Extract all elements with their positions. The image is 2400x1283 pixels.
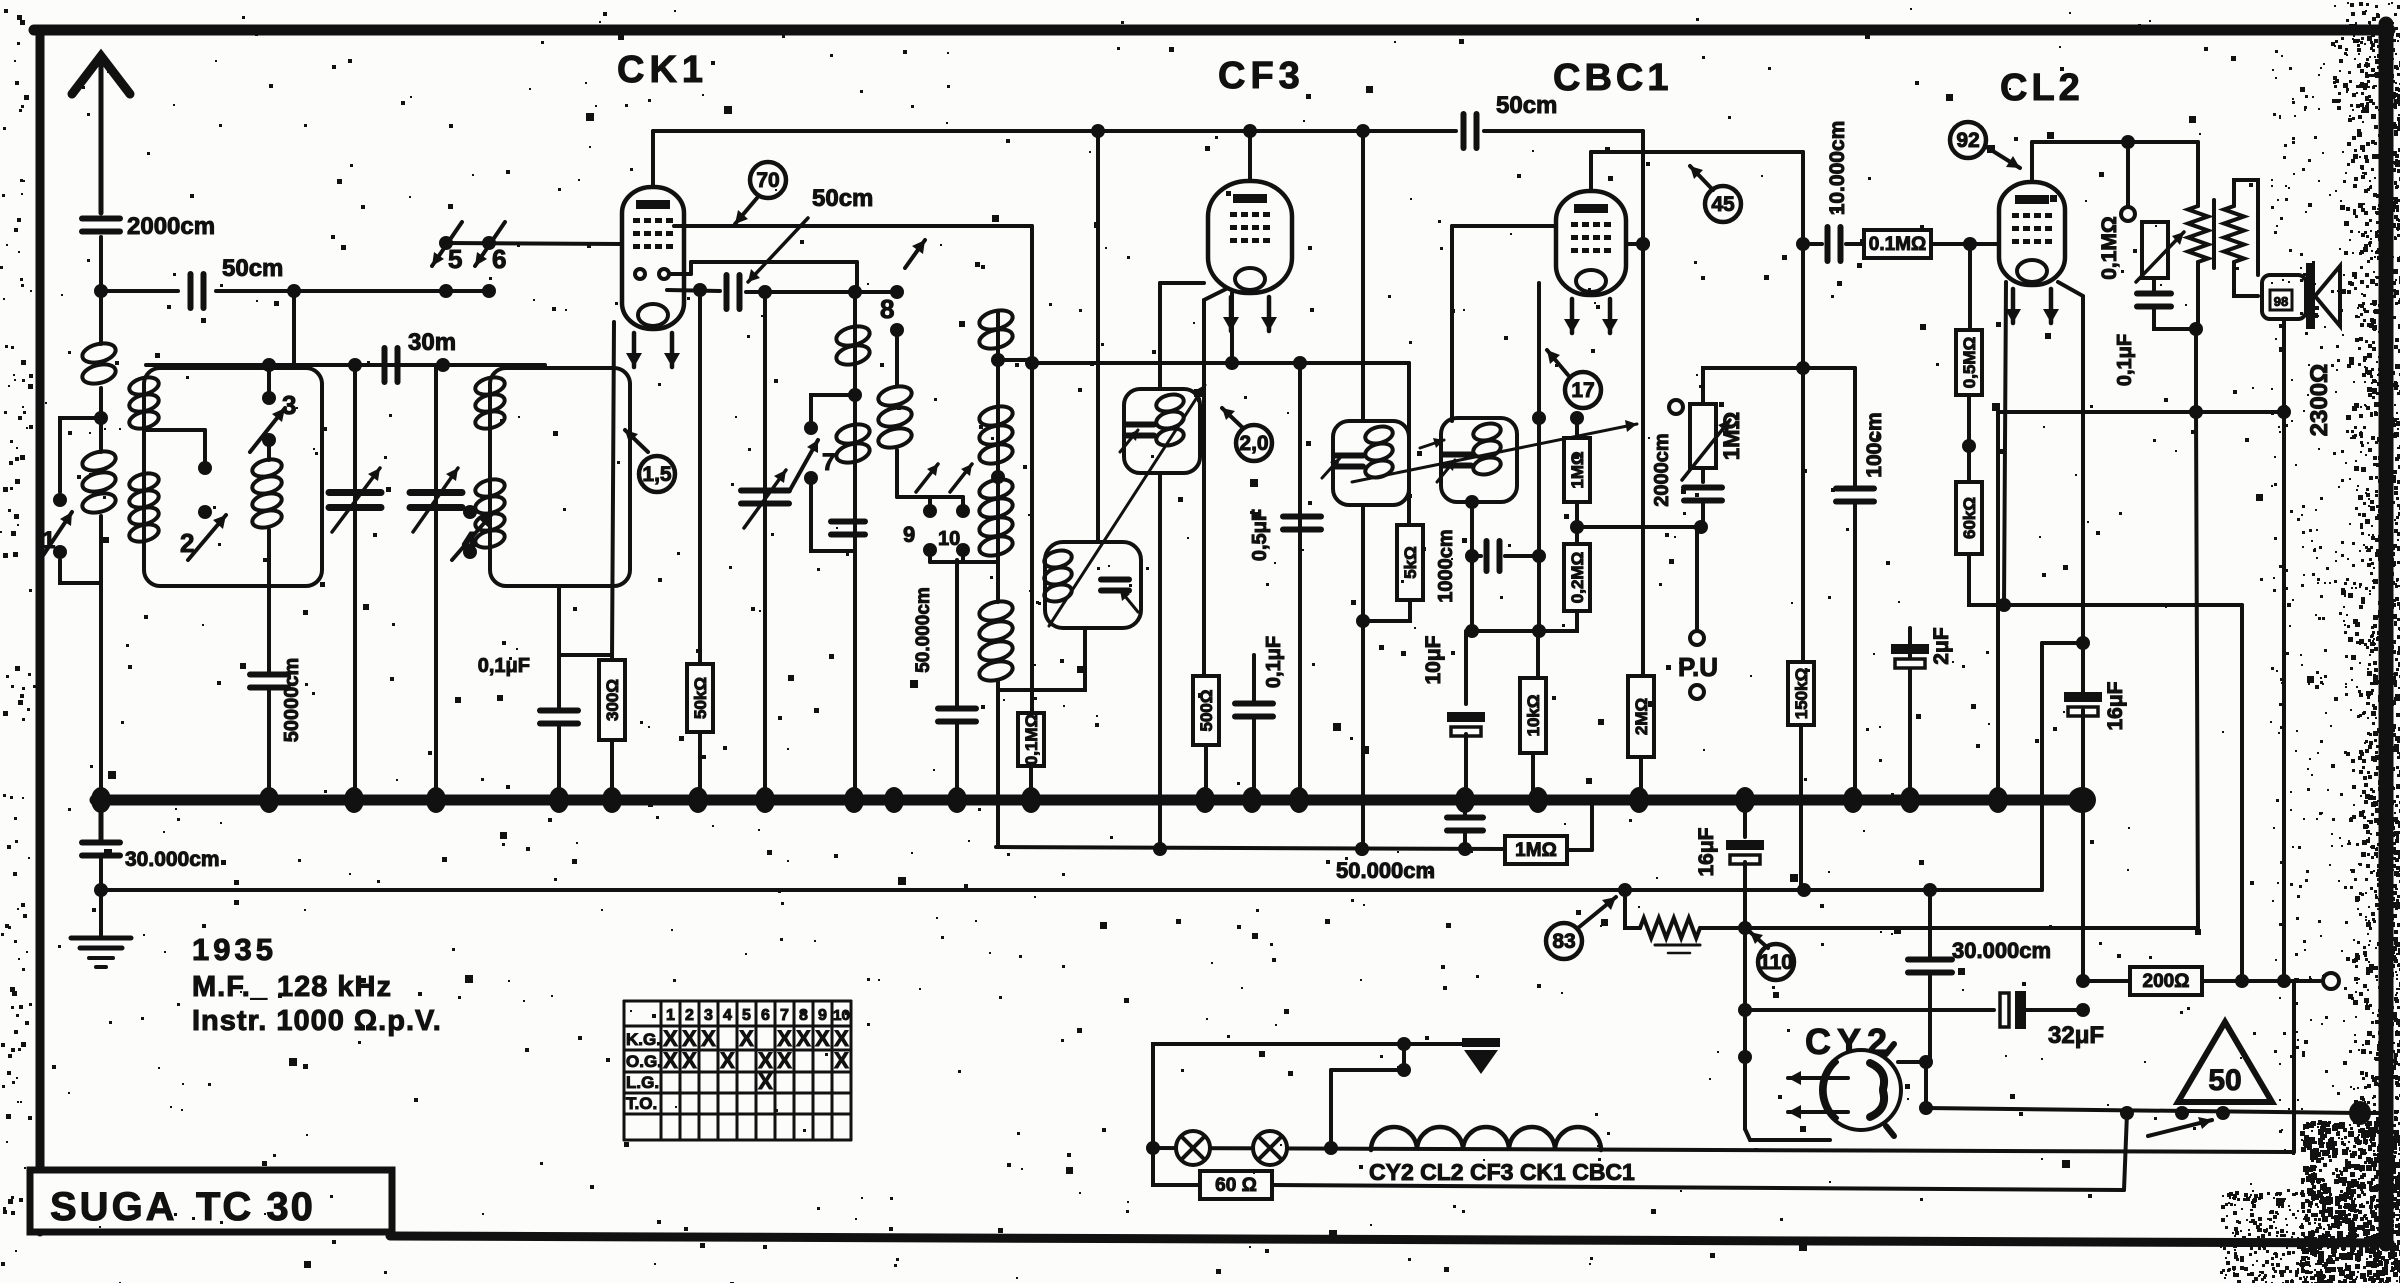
svg-text:10: 10: [833, 1007, 850, 1024]
svg-text:P.U: P.U: [1678, 652, 1718, 682]
svg-text:0,1MΩ: 0,1MΩ: [2098, 216, 2121, 280]
svg-text:60 Ω: 60 Ω: [1215, 1175, 1257, 1196]
svg-text:2: 2: [180, 528, 194, 558]
svg-text:200Ω: 200Ω: [2143, 971, 2190, 992]
svg-text:6: 6: [492, 244, 506, 274]
svg-text:6: 6: [761, 1007, 770, 1024]
svg-text:30m: 30m: [408, 329, 456, 356]
svg-text:X: X: [758, 1069, 773, 1094]
svg-text:X: X: [739, 1026, 754, 1051]
svg-text:X: X: [777, 1048, 792, 1073]
svg-text:X: X: [720, 1048, 735, 1073]
svg-text:L.G.: L.G.: [626, 1073, 659, 1092]
svg-text:50cm: 50cm: [1496, 92, 1557, 119]
svg-text:1: 1: [666, 1007, 675, 1024]
svg-text:1,5: 1,5: [642, 463, 672, 486]
svg-text:16μF: 16μF: [2104, 681, 2127, 730]
svg-text:50.000cm: 50.000cm: [1336, 858, 1435, 883]
svg-text:2: 2: [685, 1007, 694, 1024]
svg-text:2000cm: 2000cm: [127, 213, 215, 240]
svg-text:10.000cm: 10.000cm: [1826, 121, 1849, 216]
svg-text:3: 3: [282, 390, 296, 420]
svg-text:300Ω: 300Ω: [603, 679, 622, 721]
svg-text:CL2: CL2: [2000, 67, 2084, 109]
svg-text:TC 30: TC 30: [196, 1185, 315, 1229]
svg-text:60kΩ: 60kΩ: [1960, 497, 1979, 539]
svg-text:2000cm: 2000cm: [1651, 433, 1673, 506]
svg-text:SUGA: SUGA: [50, 1185, 178, 1229]
svg-text:X: X: [815, 1026, 830, 1051]
svg-text:10: 10: [938, 528, 960, 550]
svg-text:50cm: 50cm: [222, 255, 283, 282]
svg-text:9: 9: [903, 522, 915, 547]
svg-text:X: X: [834, 1048, 849, 1073]
svg-text:0,1MΩ: 0,1MΩ: [1022, 714, 1041, 765]
svg-text:0,1μF: 0,1μF: [478, 655, 530, 677]
svg-text:50: 50: [2208, 1064, 2241, 1097]
svg-text:CK1: CK1: [617, 49, 708, 91]
svg-text:83: 83: [1552, 930, 1575, 953]
svg-text:2300Ω: 2300Ω: [2306, 364, 2333, 437]
svg-text:4: 4: [723, 1007, 732, 1024]
svg-text:0.1MΩ: 0.1MΩ: [1869, 234, 1926, 255]
svg-text:16μF: 16μF: [1695, 827, 1718, 876]
svg-text:10μF: 10μF: [1422, 635, 1445, 684]
svg-text:17: 17: [1571, 379, 1594, 402]
svg-text:K.G.: K.G.: [626, 1030, 661, 1049]
svg-text:1MΩ: 1MΩ: [1515, 840, 1557, 861]
svg-text:0,1μF: 0,1μF: [1263, 636, 1285, 688]
svg-text:Instr. 1000 Ω.p.V.: Instr. 1000 Ω.p.V.: [192, 1005, 442, 1037]
svg-text:5: 5: [448, 244, 462, 274]
svg-text:5: 5: [742, 1007, 751, 1024]
svg-text:150kΩ: 150kΩ: [1792, 668, 1811, 719]
svg-text:0,1μF: 0,1μF: [2114, 334, 2136, 386]
svg-text:50cm: 50cm: [812, 185, 873, 212]
svg-text:1MΩ: 1MΩ: [1719, 412, 1744, 460]
svg-text:CY2 CL2 CF3 CK1 CBC1: CY2 CL2 CF3 CK1 CBC1: [1369, 1159, 1635, 1185]
svg-text:7: 7: [780, 1007, 789, 1024]
svg-text:2μF: 2μF: [1930, 627, 1953, 665]
svg-text:7: 7: [822, 449, 835, 476]
svg-text:98: 98: [2274, 294, 2288, 309]
svg-text:X: X: [796, 1026, 811, 1051]
svg-text:9: 9: [818, 1007, 827, 1024]
svg-text:X: X: [701, 1026, 716, 1051]
svg-text:0,5MΩ: 0,5MΩ: [1960, 337, 1979, 388]
svg-text:10kΩ: 10kΩ: [1524, 695, 1543, 737]
svg-text:100cm: 100cm: [1863, 412, 1886, 477]
svg-text:X: X: [663, 1048, 678, 1073]
svg-text:92: 92: [1956, 129, 1979, 152]
svg-text:T.O.: T.O.: [626, 1094, 657, 1113]
svg-text:50kΩ: 50kΩ: [691, 677, 710, 719]
svg-text:1935: 1935: [192, 932, 277, 967]
svg-text:30.000cm: 30.000cm: [1952, 938, 2051, 963]
svg-text:30.000cm: 30.000cm: [125, 848, 220, 871]
svg-text:X: X: [682, 1048, 697, 1073]
svg-text:8: 8: [880, 294, 894, 324]
svg-text:O.G.: O.G.: [626, 1052, 662, 1071]
svg-text:50000cm: 50000cm: [281, 658, 303, 743]
svg-text:M.F._ 128 kHz: M.F._ 128 kHz: [192, 971, 392, 1003]
svg-text:45: 45: [1711, 193, 1735, 216]
svg-text:0,2MΩ: 0,2MΩ: [1568, 552, 1587, 603]
svg-text:CBC1: CBC1: [1553, 57, 1672, 99]
svg-text:1000cm: 1000cm: [1435, 529, 1457, 602]
svg-text:70: 70: [756, 169, 779, 192]
svg-text:32μF: 32μF: [2048, 1022, 2104, 1049]
svg-text:5kΩ: 5kΩ: [1401, 546, 1420, 579]
svg-text:3: 3: [704, 1007, 713, 1024]
svg-text:CF3: CF3: [1218, 55, 1305, 97]
svg-text:1: 1: [42, 527, 55, 554]
svg-text:50.000cm: 50.000cm: [913, 587, 934, 673]
svg-text:110: 110: [1759, 951, 1793, 974]
svg-text:2,0: 2,0: [1239, 432, 1268, 455]
svg-text:8: 8: [799, 1007, 808, 1024]
